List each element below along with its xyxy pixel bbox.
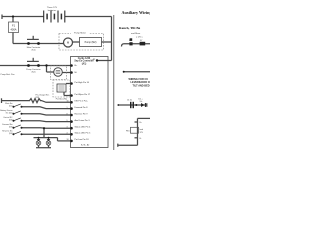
svg-text:(K2): (K2) xyxy=(32,71,36,73)
svg-text:and More: and More xyxy=(131,32,141,35)
svg-text:(S3): (S3) xyxy=(9,126,13,128)
svg-text:Sep Ex Controller: Sep Ex Controller xyxy=(74,60,93,63)
svg-text:18: 18 xyxy=(67,139,69,141)
svg-text:KSI Pin 1 Pos.: KSI Pin 1 Pos. xyxy=(75,101,89,103)
svg-text:3: 3 xyxy=(67,127,68,129)
svg-text:KC (S2): KC (S2) xyxy=(6,112,13,114)
svg-text:Ranch, Tilt Be: Ranch, Tilt Be xyxy=(119,26,141,30)
svg-text:TILT AND BED: TILT AND BED xyxy=(133,85,150,88)
svg-text:1: 1 xyxy=(67,107,68,109)
svg-text:Pot Wiper Pin 17: Pot Wiper Pin 17 xyxy=(75,93,91,96)
svg-text:Aux Driver Pin 3: Aux Driver Pin 3 xyxy=(75,119,91,122)
svg-text:12v: 12v xyxy=(140,101,143,103)
svg-text:(K1): (K1) xyxy=(32,49,36,51)
svg-text:(A1): (A1) xyxy=(82,62,87,65)
svg-text:Pump (M2): Pump (M2) xyxy=(85,41,97,44)
svg-text:FB1: FB1 xyxy=(126,131,129,133)
svg-text:F2: F2 xyxy=(129,40,131,42)
svg-text:Status LED Pin 4: Status LED Pin 4 xyxy=(75,126,92,129)
svg-text:a 12V a: a 12V a xyxy=(136,37,143,39)
svg-text:400A: 400A xyxy=(10,28,16,32)
svg-text:Pot High Pin 16: Pot High Pin 16 xyxy=(75,81,90,84)
svg-text:4: 4 xyxy=(67,133,68,135)
svg-text:Status LED Pin 5: Status LED Pin 5 xyxy=(75,132,92,135)
svg-text:(S6): (S6) xyxy=(9,119,13,121)
svg-text:M-: M- xyxy=(75,72,78,74)
svg-text:8: 8 xyxy=(67,113,68,115)
svg-text:batteries: batteries xyxy=(48,9,57,12)
svg-text:(S1): (S1) xyxy=(9,105,13,107)
svg-text:C1 5x: C1 5x xyxy=(127,99,132,101)
svg-text:Three 12V: Three 12V xyxy=(47,6,58,9)
svg-text:(S4): (S4) xyxy=(9,133,13,135)
svg-text:Pot Low Pin 18: Pot Low Pin 18 xyxy=(75,138,90,141)
svg-text:B- M+ A2: B- M+ A2 xyxy=(81,144,90,147)
svg-text:Auxiliary Wiring: Auxiliary Wiring xyxy=(122,10,151,15)
svg-text:Forward Pin 8: Forward Pin 8 xyxy=(75,106,89,109)
svg-text:Reverse Pin 9: Reverse Pin 9 xyxy=(75,112,89,115)
svg-text:Pump Batt. Pos.: Pump Batt. Pos. xyxy=(1,73,16,76)
svg-text:S7: S7 xyxy=(140,40,142,42)
svg-text:Pump Motor: Pump Motor xyxy=(74,32,86,35)
svg-text:Curtis 1243: Curtis 1243 xyxy=(78,57,91,60)
svg-text:16: 16 xyxy=(67,101,69,103)
svg-text:(R2): (R2) xyxy=(36,97,40,99)
svg-text:9: 9 xyxy=(67,120,68,122)
